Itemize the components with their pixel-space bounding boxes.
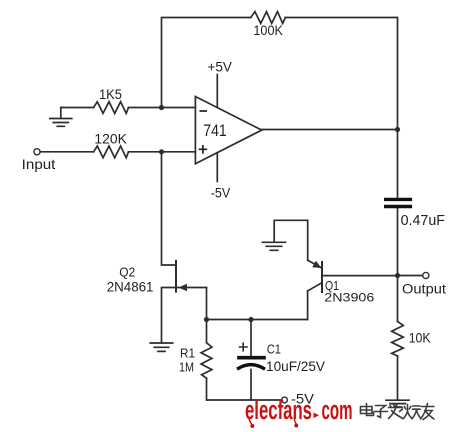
svg-text:2N4861: 2N4861 <box>107 280 154 295</box>
svg-text:com: com <box>322 395 353 425</box>
svg-text:2N3906: 2N3906 <box>324 293 374 305</box>
svg-text:Q2: Q2 <box>119 265 135 280</box>
svg-text:1M: 1M <box>179 361 194 375</box>
svg-text:10uF/25V: 10uF/25V <box>266 359 325 374</box>
svg-text:741: 741 <box>203 122 226 140</box>
svg-text:120K: 120K <box>94 132 127 147</box>
svg-text:-5V: -5V <box>211 186 231 201</box>
svg-text:elecfans: elecfans <box>245 395 312 425</box>
svg-text:Q1: Q1 <box>325 279 339 293</box>
svg-text:100K: 100K <box>253 23 283 38</box>
svg-text:1K5: 1K5 <box>99 87 122 102</box>
svg-text:10K: 10K <box>409 331 431 346</box>
svg-text:Output: Output <box>402 282 446 297</box>
svg-text:Input: Input <box>22 156 56 172</box>
svg-text:C1: C1 <box>267 342 281 357</box>
svg-text:+5V: +5V <box>208 60 232 75</box>
svg-text:R1: R1 <box>180 347 195 361</box>
svg-text:0.47uF: 0.47uF <box>401 213 446 229</box>
